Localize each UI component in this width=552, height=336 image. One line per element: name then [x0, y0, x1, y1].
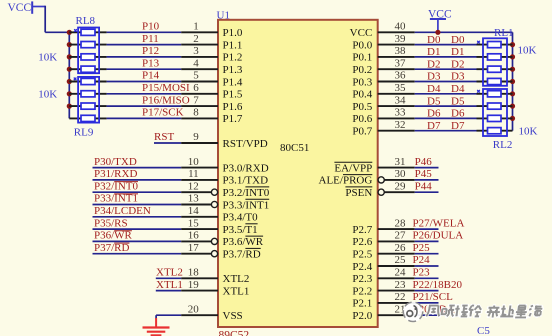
svg-text:4: 4 [193, 57, 199, 69]
svg-text:U1: U1 [217, 9, 230, 21]
resistor element 5 of RL2 [488, 91, 502, 97]
svg-text:P2.0: P2.0 [352, 310, 372, 322]
svg-text:RST: RST [154, 131, 174, 143]
resistor pin leads R0 right network [477, 44, 513, 46]
pin 26 lead of U1 [378, 253, 415, 255]
junction dot left bus row 4 [67, 67, 72, 72]
svg-text:31: 31 [395, 156, 406, 168]
pin 14 lead of U1 [181, 216, 218, 218]
resistor pin lead left R8 [69, 117, 106, 119]
pin 19 lead of U1 [181, 290, 218, 292]
wire net P11 [107, 44, 182, 46]
ground symbol bar 2 [147, 331, 166, 333]
wire net P23 [415, 277, 439, 279]
svg-text:11: 11 [188, 168, 199, 180]
svg-text:RL9: RL9 [74, 126, 94, 138]
wire net D3 [415, 81, 477, 83]
pin 29 lead of U1 [384, 191, 414, 193]
wire net RST [154, 142, 181, 144]
overline of INT1 on pin name P3.3/INT1 [245, 198, 269, 200]
svg-text:P3.1/TXD: P3.1/TXD [223, 175, 269, 187]
svg-text:D4: D4 [451, 83, 465, 95]
pin 4 lead of U1 [181, 68, 218, 70]
resistor pin lead left R4 [69, 68, 106, 70]
svg-text:36: 36 [395, 70, 407, 82]
wire net P33/INT1 [93, 204, 182, 206]
svg-text:P0.1: P0.1 [352, 52, 372, 64]
svg-text:P2.6: P2.6 [352, 236, 372, 248]
resistor pin leads R3 right network [477, 81, 513, 83]
svg-text:P10: P10 [142, 21, 160, 33]
svg-text:P2.4: P2.4 [352, 261, 372, 273]
wire net P25 [415, 253, 439, 255]
pin 38 lead of U1 [378, 56, 415, 58]
wire net D5 [415, 105, 477, 107]
svg-text:D1: D1 [451, 46, 464, 58]
svg-text:D3: D3 [451, 71, 465, 83]
junction dot left bus row 6 [67, 91, 72, 96]
pin 31 lead of U1 [378, 167, 415, 169]
wire net XTL2 [156, 277, 181, 279]
inversion bubble pin 16 [211, 238, 217, 244]
svg-text:ALE/PROG: ALE/PROG [319, 175, 373, 187]
pin 8 lead of U1 [181, 117, 218, 119]
svg-text:D5: D5 [427, 95, 441, 107]
pin 28 lead of U1 [378, 228, 415, 230]
resistor pin leads R4 right network [477, 93, 513, 95]
overline of RD on pin name P3.7/RD [245, 247, 260, 249]
pin 39 lead of U1 [378, 44, 415, 46]
svg-text:P0.2: P0.2 [352, 64, 372, 76]
wire net D6 [415, 117, 477, 119]
pin 1 lead of U1 [181, 31, 218, 33]
svg-text:P2.7: P2.7 [352, 224, 372, 236]
junction dot left bus row 7 [67, 104, 72, 109]
svg-text:28: 28 [395, 217, 407, 229]
pin 15 lead of U1 [181, 228, 218, 230]
resistor element 4 of RL8 [81, 66, 95, 72]
svg-text:P2.3: P2.3 [352, 273, 372, 285]
svg-text:33: 33 [395, 107, 407, 119]
overline of INT1 on net label P33/INT1 [114, 193, 138, 195]
inversion bubble pin 17 [211, 251, 217, 257]
overline of PROG on pin name ALE/PROG [343, 174, 372, 176]
overline of WR on pin name P3.6/WR [245, 235, 263, 237]
svg-text:19: 19 [188, 279, 200, 291]
svg-text:P0.0: P0.0 [352, 39, 372, 51]
svg-text:D2: D2 [451, 58, 464, 70]
pin 16 lead of U1 [181, 240, 211, 242]
overline of PSEN on pin name PSEN [345, 186, 372, 188]
pin 5 lead of U1 [181, 81, 218, 83]
svg-text:10K: 10K [38, 89, 57, 101]
svg-text:PSEN: PSEN [345, 187, 372, 199]
svg-text:22: 22 [395, 291, 406, 303]
svg-text:13: 13 [188, 193, 200, 205]
wire net P17/SCK [107, 117, 182, 119]
wire net P12 [107, 56, 182, 58]
svg-text:XTL1: XTL1 [223, 285, 250, 297]
svg-text:P30/TXD: P30/TXD [94, 156, 137, 168]
svg-text:P0.5: P0.5 [352, 101, 372, 113]
svg-text:D5: D5 [451, 95, 465, 107]
svg-text:16: 16 [188, 230, 200, 242]
overline of WR on net label P36/WR [114, 230, 132, 232]
junction dot right bus row 6 [510, 104, 515, 109]
svg-text:P3.4/T0: P3.4/T0 [223, 212, 259, 224]
wire net D7 [415, 130, 477, 132]
svg-text:P46: P46 [415, 156, 433, 168]
svg-text:P15/MOSI: P15/MOSI [142, 82, 190, 94]
power port VCC top-right bar [430, 18, 446, 20]
wire net P30/TXD [93, 167, 182, 169]
resistor element 6 of RL9 [81, 91, 95, 97]
wire net P13 [107, 68, 182, 70]
wire ground stem upper [155, 315, 157, 319]
pin 23 lead of U1 [378, 290, 415, 292]
svg-text:D6: D6 [427, 108, 441, 120]
svg-text:D7: D7 [451, 120, 465, 132]
svg-text:P31/RXD: P31/RXD [94, 168, 137, 180]
svg-text:C5: C5 [477, 325, 490, 336]
svg-text:15: 15 [188, 217, 200, 229]
svg-text:9: 9 [193, 131, 199, 143]
resistor element 8 of RL9 [81, 115, 95, 121]
wire net VSS to ground [156, 314, 181, 316]
wire net P46 [415, 167, 439, 169]
svg-text:5: 5 [193, 70, 199, 82]
pin 7 lead of U1 [181, 105, 218, 107]
wire net P27/WELA [415, 228, 439, 230]
resistor element 2 of RL8 [81, 42, 95, 48]
svg-text:10K: 10K [518, 44, 537, 56]
wire net P24 [415, 265, 439, 267]
resistor pin lead left R7 [69, 105, 106, 107]
wire net P36/WR [93, 240, 182, 242]
svg-text:P13: P13 [142, 57, 160, 69]
wire right pull-up bus [512, 32, 514, 130]
svg-text:89C52: 89C52 [219, 330, 250, 336]
svg-text:D0: D0 [451, 34, 465, 46]
wire net P34/LCDEN [93, 216, 182, 218]
svg-text:XTL2: XTL2 [223, 273, 250, 285]
pin 20 lead of U1 [181, 314, 218, 316]
pin-1 marker RL2 [477, 90, 480, 93]
pin 27 lead of U1 [378, 240, 415, 242]
svg-text:P1.5: P1.5 [223, 89, 243, 101]
svg-text:P23: P23 [413, 267, 431, 279]
svg-text:P1.4: P1.4 [223, 76, 243, 88]
svg-text:P1.7: P1.7 [223, 113, 243, 125]
power port VCC top-left bar [31, 1, 33, 13]
overline of T1 on pin name P3.5/T1 [245, 223, 257, 225]
pin 34 lead of U1 [378, 105, 415, 107]
wire net XTL1 [156, 290, 181, 292]
svg-text:26: 26 [395, 242, 407, 254]
resistor pin leads R6 right network [477, 117, 513, 119]
svg-text:P26/DULA: P26/DULA [413, 230, 464, 242]
pin 24 lead of U1 [378, 277, 415, 279]
wire net P20/SDA [415, 314, 439, 316]
pin-1 marker RL9 [74, 78, 77, 81]
svg-text:P1.2: P1.2 [223, 52, 243, 64]
resistor element 7 of RL2 [488, 115, 502, 121]
svg-text:10: 10 [188, 156, 200, 168]
resistor element 3 of RL1 [488, 66, 502, 72]
svg-text:P27/WELA: P27/WELA [413, 217, 465, 229]
svg-text:P0.6: P0.6 [352, 113, 372, 125]
svg-text:EA/VPP: EA/VPP [334, 162, 372, 174]
resistor element 7 of RL9 [81, 103, 95, 109]
wire net D0 [415, 44, 477, 46]
svg-text:P35/RS: P35/RS [94, 217, 128, 229]
svg-text:RL2: RL2 [493, 139, 513, 151]
resistor element 6 of RL2 [488, 103, 502, 109]
svg-text:3: 3 [193, 45, 199, 57]
junction dot right bus row 1 [510, 42, 515, 47]
svg-text:39: 39 [395, 33, 407, 45]
pin 33 lead of U1 [378, 117, 415, 119]
svg-text:P0.4: P0.4 [352, 89, 372, 101]
resistor network RL9 body [78, 77, 99, 123]
resistor pin lead left R1 [69, 31, 106, 33]
resistor network RL1 body [483, 38, 507, 86]
pin 9 lead of U1 [181, 142, 218, 144]
svg-text:P44: P44 [415, 180, 433, 192]
svg-text:20: 20 [188, 303, 200, 315]
svg-text:18: 18 [188, 267, 200, 279]
svg-text:80C51: 80C51 [280, 142, 309, 154]
svg-text:P14: P14 [142, 70, 160, 82]
svg-text:P24: P24 [413, 254, 431, 266]
svg-text:P33/INT1: P33/INT1 [94, 193, 138, 205]
pin 32 lead of U1 [378, 130, 415, 132]
pin 13 lead of U1 [181, 204, 211, 206]
svg-text:24: 24 [395, 267, 407, 279]
pin 30 lead of U1 [384, 179, 414, 181]
wire net D2 [415, 68, 477, 70]
svg-text:P0.7: P0.7 [352, 126, 372, 138]
svg-text:P1.1: P1.1 [223, 39, 243, 51]
pin 40 lead of U1 [378, 31, 415, 33]
svg-text:RL1: RL1 [494, 27, 514, 39]
wire net VCC row 40 [415, 31, 513, 33]
inversion bubble pin 29 [378, 189, 384, 195]
wire net D1 [415, 56, 477, 58]
svg-text:D0: D0 [427, 34, 441, 46]
wire net D4 [415, 93, 477, 95]
pin 35 lead of U1 [378, 93, 415, 95]
junction dot left bus row 2 [67, 42, 72, 47]
wire net P16/MISO [107, 105, 182, 107]
inversion bubble pin 13 [211, 201, 217, 207]
svg-text:27: 27 [395, 230, 407, 242]
pin 6 lead of U1 [181, 93, 218, 95]
svg-text:34: 34 [395, 94, 407, 106]
wire net P32/INT0 [93, 191, 182, 193]
svg-text:P3.5/T1: P3.5/T1 [223, 224, 258, 236]
overline of INT0 on net label P32/INT0 [114, 181, 138, 183]
svg-text:P1.3: P1.3 [223, 64, 243, 76]
wire VCC feed vertical [44, 6, 46, 33]
wire net P31/RXD [93, 179, 182, 181]
pin 3 lead of U1 [181, 56, 218, 58]
junction dot right bus row 7 [510, 116, 515, 121]
junction dot left bus row 5 [67, 79, 72, 84]
overline of EA/VPP on pin name EA/VPP [334, 161, 372, 163]
svg-text:P2.1: P2.1 [352, 298, 372, 310]
pin 11 lead of U1 [181, 179, 218, 181]
ground symbol bar 1 [143, 326, 170, 328]
svg-text:P2.5: P2.5 [352, 249, 372, 261]
pin 2 lead of U1 [181, 44, 218, 46]
wire left pull-up bus [68, 32, 70, 118]
svg-text:8: 8 [193, 107, 199, 119]
pin 21 lead of U1 [378, 314, 415, 316]
resistor element 1 of RL8 [81, 29, 95, 35]
wire net P45 [415, 179, 439, 181]
wire net P22/18B20 [415, 290, 439, 292]
resistor element 3 of RL8 [81, 54, 95, 60]
pin 36 lead of U1 [378, 81, 415, 83]
svg-text:D2: D2 [427, 58, 440, 70]
svg-text:P12: P12 [142, 45, 159, 57]
svg-text:40: 40 [395, 21, 407, 33]
svg-text:P3.0/RXD: P3.0/RXD [223, 162, 269, 174]
svg-text:25: 25 [395, 254, 407, 266]
pin 17 lead of U1 [181, 253, 211, 255]
svg-text:D7: D7 [427, 120, 441, 132]
junction dot VCC stub [435, 30, 440, 35]
junction dot right bus row 5 [510, 91, 515, 96]
ground symbol bar 3 [151, 334, 162, 336]
resistor pin lead left R2 [69, 44, 106, 46]
svg-text:P37/RD: P37/RD [94, 242, 130, 254]
svg-text:23: 23 [395, 279, 407, 291]
resistor element 8 of RL2 [488, 128, 502, 134]
svg-text:P17/SCK: P17/SCK [142, 107, 184, 119]
wire net P10 [107, 31, 182, 33]
resistor pin lead left R5 [69, 81, 106, 83]
svg-text:17: 17 [188, 242, 200, 254]
svg-text:RL8: RL8 [76, 15, 96, 27]
svg-text:7: 7 [193, 94, 199, 106]
resistor element 5 of RL9 [81, 78, 95, 84]
svg-text:P21/SCL: P21/SCL [413, 291, 454, 303]
svg-text:D6: D6 [451, 108, 465, 120]
watermark text [426, 306, 542, 318]
svg-text:38: 38 [395, 45, 407, 57]
pin 22 lead of U1 [378, 302, 415, 304]
resistor pin leads R5 right network [477, 105, 513, 107]
svg-text:XTL1: XTL1 [156, 279, 183, 291]
wire net P15/MOSI [107, 93, 182, 95]
watermark logo circle [403, 302, 423, 322]
svg-text:37: 37 [395, 57, 407, 69]
overline of INT0 on pin name P3.2/INT0 [245, 186, 269, 188]
svg-text:30: 30 [395, 168, 407, 180]
svg-text:D4: D4 [427, 83, 441, 95]
svg-text:P2.2: P2.2 [352, 285, 372, 297]
inversion bubble pin 30 [378, 177, 384, 183]
resistor element 2 of RL1 [488, 54, 502, 60]
resistor pin leads R7 right network [477, 130, 513, 132]
svg-text:P16/MISO: P16/MISO [142, 94, 190, 106]
svg-text:XTL2: XTL2 [156, 267, 183, 279]
svg-text:P1.0: P1.0 [223, 27, 243, 39]
ground symbol stem [155, 318, 157, 328]
junction dot right bus row 3 [510, 67, 515, 72]
svg-text:P1.6: P1.6 [223, 101, 243, 113]
overline of RD on net label P37/RD [114, 242, 129, 244]
junction dot left bus row 1 [67, 30, 72, 35]
resistor element 1 of RL1 [488, 42, 502, 48]
resistor pin leads R2 right network [477, 68, 513, 70]
svg-text:12: 12 [188, 180, 199, 192]
resistor element 4 of RL1 [488, 78, 502, 84]
pin-1 marker RL1 [477, 41, 480, 44]
svg-text:P3.3/INT1: P3.3/INT1 [223, 199, 270, 211]
svg-text:VSS: VSS [223, 310, 243, 322]
pin 25 lead of U1 [378, 265, 415, 267]
svg-text:29: 29 [395, 180, 407, 192]
wire net P14 [107, 81, 182, 83]
svg-text:35: 35 [395, 82, 407, 94]
svg-text:P22/18B20: P22/18B20 [413, 279, 463, 291]
resistor network RL8 body [78, 28, 99, 74]
svg-text:P11: P11 [142, 33, 159, 45]
svg-text:P3.7/RD: P3.7/RD [223, 249, 261, 261]
svg-text:P25: P25 [413, 242, 431, 254]
junction dot right bus row 4 [510, 79, 515, 84]
svg-text:D3: D3 [427, 71, 441, 83]
resistor pin lead left R6 [69, 93, 106, 95]
svg-text:P32/INT0: P32/INT0 [94, 180, 139, 192]
svg-text:32: 32 [395, 119, 406, 131]
svg-text:P0.3: P0.3 [352, 76, 372, 88]
svg-text:P34/LCDEN: P34/LCDEN [94, 205, 151, 217]
svg-text:P3.6/WR: P3.6/WR [223, 236, 264, 248]
svg-text:1: 1 [193, 21, 199, 33]
wire net P26/DULA [415, 240, 439, 242]
wire net P21/SCL [415, 302, 439, 304]
svg-text:RST/VPD: RST/VPD [223, 138, 268, 150]
svg-text:VCC: VCC [8, 2, 32, 14]
svg-text:P45: P45 [415, 168, 433, 180]
wire net P37/RD [93, 253, 182, 255]
wire net P44 [415, 191, 439, 193]
svg-text:P36/WR: P36/WR [94, 230, 133, 242]
pin 10 lead of U1 [181, 167, 218, 169]
power port VCC top-left stub [31, 6, 45, 8]
svg-text:P3.2/INT0: P3.2/INT0 [223, 187, 270, 199]
pin-1 marker RL8 [74, 29, 77, 32]
wire net P35/RS [93, 228, 182, 230]
resistor network RL2 body [483, 89, 507, 136]
svg-text:VCC: VCC [350, 27, 373, 39]
IC U1 80C51 microcontroller body [218, 20, 378, 327]
junction dot right bus row 2 [510, 54, 515, 59]
svg-text:14: 14 [188, 205, 200, 217]
svg-text:2: 2 [193, 33, 199, 45]
pin 37 lead of U1 [378, 68, 415, 70]
resistor pin lead left R3 [69, 56, 106, 58]
power port VCC top-right stub [437, 19, 439, 32]
pin 18 lead of U1 [181, 277, 218, 279]
svg-text:10K: 10K [38, 51, 57, 63]
inversion bubble pin 12 [211, 189, 217, 195]
svg-text:6: 6 [193, 82, 199, 94]
